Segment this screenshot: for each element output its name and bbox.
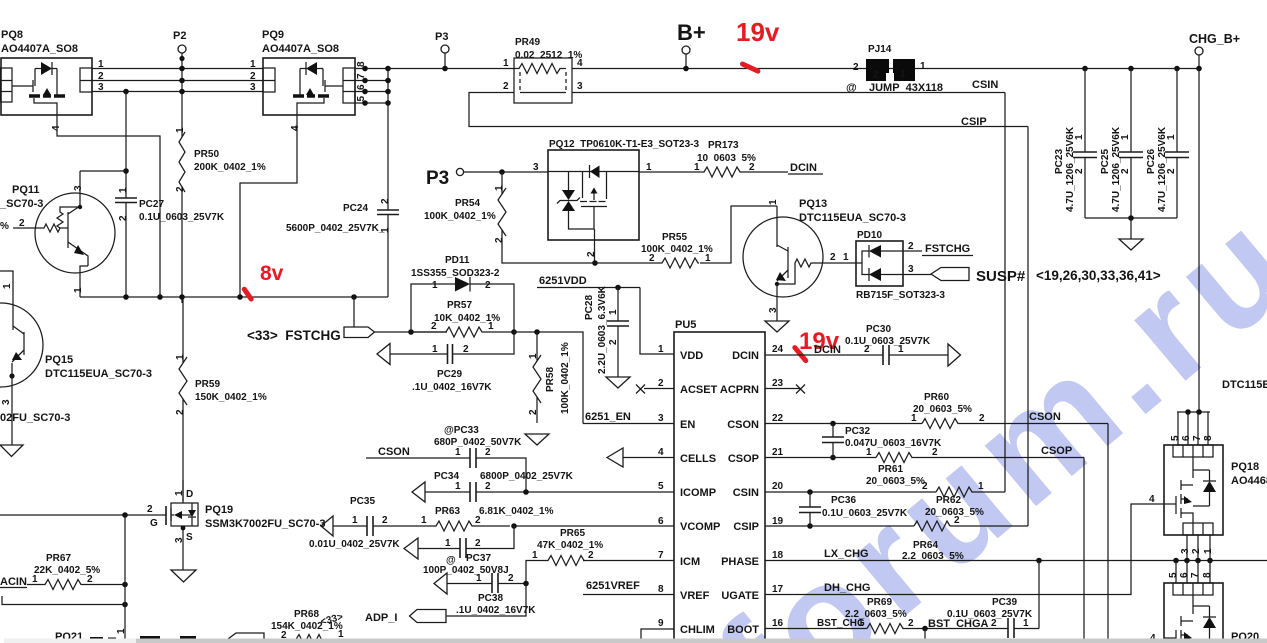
junction dots on LX row at PQ18/PQ20 pins (1173, 558, 1213, 564)
svg-text:PR49: PR49 (515, 37, 540, 48)
transistor PQ11 _SC70-3 (0, 171, 126, 297)
svg-text:VCOMP: VCOMP (680, 521, 720, 533)
svg-text:5: 5 (1168, 572, 1179, 578)
svg-text:PR65: PR65 (560, 528, 585, 539)
svg-text:9: 9 (658, 618, 664, 629)
junction dots on B+ bus (1082, 66, 1088, 72)
svg-text:2: 2 (908, 618, 914, 629)
resistor on CSIP row 20_0603_5% (765, 515, 1028, 531)
svg-text:PQ12 TP0610K-T1-E3_SOT23-3: PQ12 TP0610K-T1-E3_SOT23-3 (549, 139, 700, 150)
resistor PR68 154K_0402_1% (cut) (228, 609, 344, 643)
svg-text:1: 1 (900, 69, 906, 80)
ground under PQ19 (171, 570, 196, 582)
wire PQ8 pin4 to rail (57, 115, 160, 297)
svg-text:AO4407A_SO8: AO4407A_SO8 (1, 43, 78, 55)
diode PD11 1SS355_SOD323-2 (411, 255, 514, 332)
svg-text:PQ13: PQ13 (799, 198, 827, 210)
svg-text:2: 2 (649, 253, 655, 264)
transistor PQ20 (1150, 560, 1259, 643)
svg-text:2: 2 (475, 515, 481, 526)
capacitor PC36 0.1U_0603_25V7K (799, 489, 908, 529)
svg-text:2: 2 (503, 81, 509, 92)
svg-text:2: 2 (118, 215, 129, 221)
svg-text:PQ19: PQ19 (205, 504, 233, 516)
resistor PR61 20_0603_5% (765, 447, 1084, 487)
svg-text:CSON: CSON (1029, 411, 1061, 423)
resistor PR60 20_0603_5% (765, 392, 1108, 429)
svg-text:5: 5 (1170, 435, 1181, 441)
net label 6251_EN + wire EN pin3 (583, 411, 674, 424)
wire CSOP down (1083, 458, 1085, 643)
svg-text:.1U_0402_16V7K: .1U_0402_16V7K (456, 605, 536, 616)
svg-text:18: 18 (772, 550, 784, 561)
resistor PR69 2.2_0603_5% on BOOT row (765, 597, 1008, 643)
wire CSIP vertical (1027, 127, 1029, 527)
svg-text:680P_0402_50V7K: 680P_0402_50V7K (434, 437, 522, 448)
svg-text:16: 16 (772, 618, 784, 629)
svg-text:1: 1 (843, 252, 849, 263)
resistor PR65 47K_0402_1% (526, 528, 603, 584)
wire PQ9 pin4 down to rail (240, 115, 297, 297)
annotation red slash on B+ line (739, 61, 761, 75)
svg-text:6800P_0402_25V7K: 6800P_0402_25V7K (480, 471, 574, 482)
svg-text:6: 6 (1181, 435, 1192, 441)
svg-text:1: 1 (532, 550, 538, 561)
no-connect X on ACPRN pin23 (765, 385, 805, 394)
svg-text:2: 2 (494, 237, 505, 243)
svg-text:CSOP: CSOP (728, 453, 759, 465)
svg-text:2: 2 (1166, 168, 1177, 174)
svg-text:19v: 19v (736, 17, 780, 47)
svg-text:PQ18: PQ18 (1231, 461, 1259, 473)
svg-text:3: 3 (1180, 548, 1191, 554)
capacitor PC27 0.1U_0603_25V7K (115, 92, 225, 298)
wire bus lines PQ8-PQ9 (92, 69, 263, 92)
svg-text:PR63: PR63 (435, 506, 460, 517)
svg-text:22: 22 (772, 413, 784, 424)
transistor PQ8 AO4407A_SO8 (0, 29, 92, 115)
svg-text:6: 6 (658, 516, 664, 527)
svg-text:DCIN: DCIN (814, 344, 841, 356)
svg-text:1: 1 (1023, 618, 1029, 629)
wire PR49 pin3 to CSIN (572, 92, 1005, 94)
capacitor PC23 4.7U_1206_25V6K (1054, 69, 1097, 219)
svg-text:100K_0402_1%: 100K_0402_1% (560, 342, 571, 414)
svg-text:1: 1 (432, 344, 438, 355)
svg-text:1: 1 (455, 447, 461, 458)
svg-text:1: 1 (768, 199, 779, 205)
net ADP_I flag (365, 584, 526, 625)
svg-text:0.01U_0402_25V7K: 0.01U_0402_25V7K (309, 539, 400, 550)
svg-text:ADP_I: ADP_I (365, 612, 397, 624)
svg-text:PU5: PU5 (675, 319, 696, 331)
output arrow DCIN (948, 344, 961, 366)
wire CHLIM pin9 (641, 629, 674, 643)
svg-text:VREF: VREF (680, 590, 710, 602)
svg-text:2: 2 (485, 481, 491, 492)
svg-text:0.1U_0603_25V7K: 0.1U_0603_25V7K (822, 508, 908, 519)
svg-text:PC25: PC25 (1100, 149, 1111, 174)
svg-text:ACSET: ACSET (680, 384, 718, 396)
svg-text:2: 2 (608, 339, 619, 345)
svg-text:CSIN: CSIN (733, 487, 759, 499)
net label CSIN (972, 79, 998, 91)
svg-text:EN: EN (680, 419, 695, 431)
svg-text:1: 1 (445, 538, 451, 549)
svg-text:1: 1 (503, 58, 509, 69)
net label CSIP (961, 116, 987, 128)
pin labels PQ8 1 2 3 4 (51, 59, 104, 131)
svg-text:1: 1 (116, 628, 127, 634)
svg-text:ACPRN: ACPRN (720, 384, 759, 396)
wire VDD pin1 (640, 288, 674, 355)
svg-text:2: 2 (586, 251, 597, 257)
svg-text:1: 1 (73, 287, 84, 293)
svg-text:CSIP: CSIP (961, 116, 987, 128)
svg-text:3: 3 (1, 399, 12, 405)
net SUSP# flag (903, 264, 1161, 285)
scrollbar track (4, 639, 1267, 643)
svg-text:2: 2 (1074, 168, 1085, 174)
wire CSON down (1107, 424, 1109, 643)
capacitor PC34 6800P_0402_25V7K (412, 471, 574, 502)
PU5 left pin numbers (658, 344, 664, 629)
svg-text:1: 1 (1166, 134, 1177, 140)
svg-text:1: 1 (978, 481, 984, 492)
svg-text:2: 2 (658, 378, 664, 389)
svg-text:150K_0402_1%: 150K_0402_1% (195, 392, 267, 403)
svg-text:1: 1 (528, 353, 539, 359)
svg-text:2.2U_0603_6.3V6K: 2.2U_0603_6.3V6K (597, 285, 608, 374)
resistor PR62 20_0603_5% (765, 481, 1005, 518)
svg-text:2: 2 (991, 618, 997, 629)
svg-text:PR61: PR61 (878, 464, 903, 475)
svg-text:PD11: PD11 (445, 255, 470, 266)
svg-text:PR60: PR60 (924, 392, 949, 403)
svg-text:@: @ (846, 82, 857, 94)
svg-text:17: 17 (772, 584, 784, 595)
svg-text:2: 2 (932, 447, 938, 458)
svg-text:02FU_SC70-3: 02FU_SC70-3 (0, 412, 70, 424)
svg-text:S: S (186, 532, 193, 543)
svg-text:3: 3 (533, 162, 539, 173)
svg-text:ACIN: ACIN (0, 576, 27, 588)
svg-text:20_0603_5%: 20_0603_5% (913, 404, 972, 415)
svg-text:2: 2 (485, 280, 491, 291)
transistor PQ15 DTC115EUA_SC70-3 (0, 303, 152, 445)
svg-text:2: 2 (528, 409, 539, 415)
svg-text:PR57: PR57 (447, 300, 472, 311)
svg-text:2: 2 (380, 198, 391, 204)
svg-text:1: 1 (858, 618, 864, 629)
svg-text:PC24: PC24 (343, 203, 368, 214)
svg-text:<33> FSTCHG: <33> FSTCHG (247, 328, 341, 343)
resistor PR49 0.02_2512_1% (503, 37, 583, 103)
wire left net to PQ21 (2, 515, 128, 643)
svg-text:CSIP: CSIP (733, 521, 759, 533)
net label 6251VDD (537, 275, 640, 288)
svg-text:2: 2 (175, 409, 186, 415)
svg-text:FSTCHG: FSTCHG (925, 243, 970, 255)
no-connect X on ACSET pin2 (636, 385, 674, 394)
svg-text:4: 4 (658, 447, 664, 458)
svg-text:1: 1 (2, 283, 13, 289)
net DH_CHG wire UGATE to PQ18 gate (765, 494, 1164, 595)
svg-text:2: 2 (147, 504, 153, 515)
svg-text:2: 2 (87, 574, 93, 585)
svg-text:PR50: PR50 (194, 149, 219, 160)
svg-text:100K_0402_1%: 100K_0402_1% (424, 211, 496, 222)
transistor PQ18 AO4468 (1164, 409, 1267, 560)
svg-text:PC38: PC38 (478, 593, 503, 604)
capacitor PC25 4.7U_1206_25V6K (1100, 69, 1143, 219)
node CHG_B+ (1189, 32, 1240, 69)
svg-text:1: 1 (118, 187, 129, 193)
ground under PQ15 (0, 445, 23, 457)
svg-text:2: 2 (508, 573, 514, 584)
svg-text:6251VREF: 6251VREF (586, 580, 640, 592)
svg-text:1: 1 (694, 162, 700, 173)
PU5 right pin labels (720, 350, 759, 636)
misc cut fragments bottom (90, 636, 398, 642)
svg-text:DCIN: DCIN (790, 162, 817, 174)
capacitor PC35 0.01U_0402_25V7K (309, 496, 424, 550)
resistor PR64 2.2_0603_5% label / net LX_CHG (765, 540, 1267, 563)
svg-text:CSON: CSON (378, 446, 410, 458)
transistor PQ21 (cut) (55, 628, 127, 643)
wire PQ9 pins 8765 to vertical bus (355, 66, 391, 106)
scrollbar thumb (136, 639, 1267, 643)
svg-text:1: 1 (174, 490, 185, 496)
svg-text:5600P_0402_25V7K_: 5600P_0402_25V7K_ (286, 223, 385, 234)
svg-text:1: 1 (1203, 548, 1214, 554)
svg-text:SSM3K7002FU_SC70-3: SSM3K7002FU_SC70-3 (205, 518, 325, 530)
junction PQ11 collector to PC27 line (123, 168, 129, 174)
svg-text:_SC70-3: _SC70-3 (0, 198, 43, 210)
resistor PR57 10K_0402_1% (411, 300, 517, 337)
svg-text:5: 5 (658, 481, 664, 492)
svg-text:JUMP_43X118: JUMP_43X118 (869, 82, 943, 94)
svg-text:PR55: PR55 (662, 232, 687, 243)
transistor PQ9 AO4407A_SO8 (262, 29, 355, 115)
svg-text:PC36: PC36 (831, 495, 856, 506)
svg-text:2: 2 (979, 413, 985, 424)
svg-text:PJ14: PJ14 (868, 44, 892, 55)
svg-text:23: 23 (772, 378, 784, 389)
resistor PR67 22K_0402_5% (0, 553, 128, 590)
svg-text:RB715F_SOT323-3: RB715F_SOT323-3 (856, 290, 945, 301)
net FSTCHG from PD10 pin2 (903, 241, 973, 256)
svg-text:PQ9: PQ9 (262, 29, 284, 41)
svg-text:@PC33: @PC33 (444, 425, 479, 436)
pin labels PQ9 (250, 59, 367, 131)
svg-text:PQ8: PQ8 (1, 29, 23, 41)
svg-text:CSIN: CSIN (972, 79, 998, 91)
resistor PR50 200K_0402_1% (175, 127, 266, 303)
svg-text:1: 1 (250, 59, 256, 70)
svg-text:1: 1 (1074, 134, 1085, 140)
svg-text:0.047U_0603_16V7K: 0.047U_0603_16V7K (845, 438, 942, 449)
wire CSIN vertical (1004, 93, 1006, 493)
ground under PC28 (606, 377, 630, 388)
svg-text:6: 6 (1179, 572, 1190, 578)
svg-text:2: 2 (830, 252, 836, 263)
svg-text:1: 1 (1120, 134, 1131, 140)
svg-text:10 0603 5%: 10 0603 5% (697, 153, 756, 164)
svg-text:DTC115EUA_SC70-3: DTC115EUA_SC70-3 (799, 212, 906, 224)
svg-text:2: 2 (1120, 168, 1131, 174)
svg-text:0.1U_0603_25V7K: 0.1U_0603_25V7K (845, 336, 931, 347)
svg-text:PD10: PD10 (857, 230, 882, 241)
capacitor PC38 .1U_0402_16V7K (434, 573, 536, 616)
svg-text:PC27: PC27 (139, 199, 164, 210)
svg-text:1: 1 (646, 162, 652, 173)
svg-text:4: 4 (577, 58, 583, 69)
capacitor PC28 2.2U_0603_6.3V6K (584, 285, 629, 377)
wire 8v rail (80, 296, 388, 298)
svg-text:1: 1 (911, 413, 917, 424)
svg-text:2: 2 (475, 538, 481, 549)
svg-text:UGATE: UGATE (721, 590, 759, 602)
wire ICOMP pin5 (526, 491, 674, 493)
svg-text:20: 20 (772, 481, 784, 492)
svg-text:2: 2 (588, 550, 594, 561)
svg-text:1: 1 (32, 574, 38, 585)
svg-text:2: 2 (922, 481, 928, 492)
resistor PR54 100K_0402_1% (424, 172, 595, 263)
diode PD10 RB715F_SOT323-3 (822, 230, 945, 301)
wire caps bottom rail (1085, 217, 1177, 219)
svg-text:PHASE: PHASE (721, 556, 759, 568)
svg-text:3: 3 (768, 307, 779, 313)
svg-text:PC28: PC28 (584, 295, 595, 320)
svg-text:CSON: CSON (727, 419, 759, 431)
annotation red slash on DCIN pin (791, 344, 809, 364)
svg-text:8: 8 (1203, 435, 1214, 441)
svg-text:VDD: VDD (680, 350, 703, 362)
wire left edge to PQ15 (0, 271, 13, 308)
svg-text:2: 2 (749, 162, 755, 173)
watermark forum.ru (687, 174, 1267, 643)
svg-text:2: 2 (908, 241, 914, 252)
capacitor PC33 680P_0402_50V7K with net CSON (366, 425, 526, 492)
svg-text:2: 2 (250, 71, 256, 82)
svg-text:6251VDD: 6251VDD (539, 275, 587, 287)
svg-text:PR58: PR58 (545, 367, 556, 392)
svg-text:1: 1 (175, 127, 186, 133)
resistor PR55 100K_0402_1% (595, 206, 777, 268)
svg-text:PQ15: PQ15 (45, 354, 73, 366)
svg-text:2: 2 (19, 218, 25, 229)
svg-text:2: 2 (463, 344, 469, 355)
svg-text:PC30: PC30 (866, 324, 891, 335)
svg-text:2: 2 (1191, 548, 1202, 554)
svg-text:7: 7 (1192, 435, 1203, 441)
svg-text:4: 4 (290, 125, 301, 131)
svg-text:1: 1 (494, 185, 505, 191)
svg-text:PR68: PR68 (294, 609, 319, 620)
label left resistor into PQ11 (0, 218, 25, 232)
svg-text:3: 3 (908, 264, 914, 275)
svg-text:ICM: ICM (680, 556, 700, 568)
svg-text:CHLIM: CHLIM (680, 624, 715, 636)
wire CHG bus down to PQ18 (1198, 69, 1200, 413)
capacitor PC24 5600P_0402_25V7K (286, 103, 399, 297)
svg-text:8: 8 (658, 584, 664, 595)
svg-text:2: 2 (485, 447, 491, 458)
wire main B+ bus (388, 68, 1199, 70)
ground under PQ13 (765, 321, 789, 332)
resistor PR63 6.81K_0402_1% (421, 506, 554, 531)
svg-text:2: 2 (954, 515, 960, 526)
svg-text:PC35: PC35 (350, 496, 375, 507)
svg-text:6251_EN: 6251_EN (585, 411, 631, 423)
svg-text:1: 1 (421, 515, 427, 526)
svg-text:<19,26,30,33,36,41>: <19,26,30,33,36,41> (1036, 268, 1161, 283)
svg-text:AO4468: AO4468 (1231, 475, 1267, 487)
node P3 mid (426, 168, 548, 189)
resistor PR58 100K_0402_1% (528, 332, 571, 423)
svg-text:G: G (150, 518, 158, 529)
svg-text:2: 2 (873, 70, 879, 81)
svg-text:PR64: PR64 (913, 540, 938, 551)
svg-text:PR67: PR67 (46, 553, 71, 564)
svg-text:PR62: PR62 (936, 495, 961, 506)
svg-text:PC26: PC26 (1146, 149, 1157, 174)
transistor PQ13 DTC115EUA_SC70-3 (743, 198, 906, 321)
node P2 (173, 30, 186, 135)
svg-text:DH_CHG: DH_CHG (824, 582, 870, 594)
svg-text:PR173: PR173 (708, 140, 739, 151)
capacitor PC26 4.7U_1206_25V6K (1146, 69, 1189, 219)
svg-text:1: 1 (866, 447, 872, 458)
svg-text:PR54: PR54 (455, 198, 480, 209)
PU5 left pin labels (680, 350, 720, 636)
ground under caps (1119, 218, 1143, 250)
svg-text:1: 1 (658, 344, 664, 355)
svg-text:7: 7 (658, 550, 664, 561)
svg-text:SUSP#: SUSP# (976, 268, 1026, 285)
svg-text:.1U_0402_16V7K: .1U_0402_16V7K (412, 382, 492, 393)
svg-text:AO4407A_SO8: AO4407A_SO8 (262, 43, 339, 55)
capacitor PC29 .1U_0402_16V7K (377, 332, 514, 393)
net <33> FSTCHG flag (247, 297, 447, 343)
svg-text:CHG_B+: CHG_B+ (1189, 32, 1240, 46)
svg-text:P3: P3 (426, 168, 449, 189)
svg-text:100P_0402_50V8J: 100P_0402_50V8J (423, 565, 509, 576)
svg-text:1: 1 (488, 321, 494, 332)
op-amp U1 / charger IC PU5 (674, 319, 765, 643)
svg-text:2: 2 (382, 515, 388, 526)
svg-text:19: 19 (772, 516, 784, 527)
svg-text:0.1U_0603_25V7K: 0.1U_0603_25V7K (947, 609, 1033, 620)
svg-text:PC39: PC39 (992, 597, 1017, 608)
transistor PQ19 SSM3K7002FU_SC70-3 (0, 480, 325, 570)
svg-text:P3: P3 (435, 31, 448, 43)
svg-text:PR69: PR69 (867, 597, 892, 608)
annotation red slash on rail (241, 286, 255, 303)
svg-text:1: 1 (432, 280, 438, 291)
svg-text:2: 2 (853, 62, 859, 73)
svg-text:B+: B+ (677, 20, 706, 45)
capacitor PC37 100P_0402_50V8J (404, 526, 514, 576)
svg-text:1: 1 (608, 309, 619, 315)
svg-text:3: 3 (658, 413, 664, 424)
input arrow CELLS pin4 (607, 448, 674, 467)
svg-text:1: 1 (455, 481, 461, 492)
svg-text:CSOP: CSOP (1041, 445, 1072, 457)
PU5 right pin numbers (772, 344, 784, 629)
